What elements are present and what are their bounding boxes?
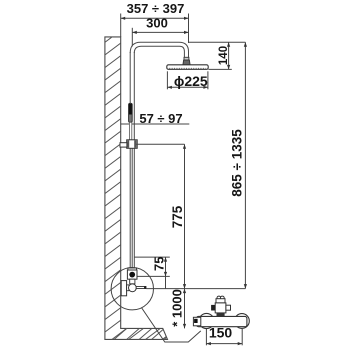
mixer top fitting crown <box>217 296 221 300</box>
fitting left lug <box>211 305 215 311</box>
mixer left cap <box>193 317 200 326</box>
hand shower <box>129 103 133 122</box>
detail circle <box>111 268 153 310</box>
riser pipe <box>130 52 134 270</box>
shower arm <box>130 42 188 58</box>
wall hatching <box>96 0 176 350</box>
svg-text:775: 775 <box>170 205 185 228</box>
shower head <box>167 65 208 70</box>
svg-text:150: 150 <box>209 324 233 340</box>
svg-text:357 ÷ 397: 357 ÷ 397 <box>127 1 185 16</box>
mixer left knob <box>199 313 214 328</box>
svg-text:75: 75 <box>151 257 166 271</box>
ball joint fitting <box>184 57 189 60</box>
dimension *1000 <box>184 289 186 329</box>
dimension 357÷397 <box>121 14 189 44</box>
valve lever <box>136 287 144 289</box>
dimension 57÷97 <box>121 123 190 125</box>
svg-text:865 ÷ 1335: 865 ÷ 1335 <box>230 129 245 197</box>
mixer body <box>197 316 247 326</box>
valve knob <box>129 284 137 292</box>
fitting nut <box>216 299 225 303</box>
plate link <box>127 285 129 291</box>
svg-text:ϕ225: ϕ225 <box>174 73 208 89</box>
dimension 75 <box>134 257 169 289</box>
svg-text:* 1000: * 1000 <box>169 289 184 327</box>
dimension 150 <box>206 329 242 345</box>
leader line <box>141 308 200 343</box>
dimension 140 <box>189 42 246 69</box>
dimension 865÷1335 <box>146 42 245 288</box>
fitting body <box>215 303 226 313</box>
svg-text:57 ÷ 97: 57 ÷ 97 <box>139 111 182 126</box>
dimension 775 <box>136 144 184 288</box>
valve neck <box>130 279 135 284</box>
wall bracket <box>120 143 127 147</box>
svg-text:300: 300 <box>146 16 168 31</box>
slider holder <box>127 140 138 149</box>
svg-text:140: 140 <box>218 46 230 65</box>
fitting bottom nut <box>217 313 225 317</box>
connector dot <box>129 272 135 278</box>
valve connector body <box>127 270 137 279</box>
valve wall plate <box>121 281 126 296</box>
dimension Ø225 <box>167 71 208 89</box>
mixer right knob <box>235 314 250 329</box>
wall <box>105 37 168 340</box>
fitting right lug <box>226 305 231 310</box>
dimension 300 <box>132 28 188 47</box>
valve connector cap <box>128 268 137 270</box>
nozzle face dotted line <box>169 67 205 69</box>
floor hatching <box>113 327 178 340</box>
